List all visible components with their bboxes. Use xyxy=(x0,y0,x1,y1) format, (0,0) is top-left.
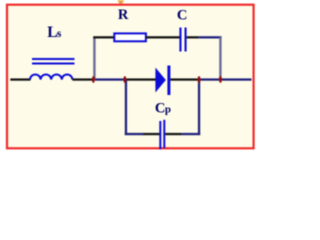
wire: C pin 2 (black) xyxy=(187,36,199,38)
wire: Cp branch right riser (navy) xyxy=(198,79,200,135)
svg-text:C: C xyxy=(155,101,165,117)
wire: Cp pin 1 (black) xyxy=(143,133,159,135)
wire: diode anode pin (black) xyxy=(125,78,156,80)
wire: Cp bottom right run (navy) xyxy=(182,133,201,135)
capacitor C : plates xyxy=(179,28,181,52)
wire: coil to node A (black) xyxy=(72,78,93,80)
wire: Cp branch left riser (navy) xyxy=(125,79,127,135)
diode D1 : cathode bar xyxy=(167,66,170,96)
svg-text:C: C xyxy=(177,7,187,23)
wire: Cp bottom left run (navy) xyxy=(125,133,144,135)
svg-text:R: R xyxy=(118,7,129,23)
junction node A xyxy=(92,76,95,82)
resistor R : body xyxy=(114,33,146,41)
wire: riser to R-C branch, right (grey-blue) xyxy=(219,37,221,80)
capacitor Cp : plates xyxy=(159,121,161,149)
svg-text:s: s xyxy=(57,28,62,40)
diode D1 : triangle xyxy=(155,68,165,93)
inductor Ls : core lines xyxy=(32,59,75,64)
wire: R pin 2 to C pin 1 (black) xyxy=(146,36,180,38)
marker arrow (orange, top) xyxy=(117,0,124,6)
wire: top branch to R pin 1 (black) xyxy=(93,36,114,38)
sheet border frame xyxy=(7,5,254,149)
wire: top branch right run (navy) xyxy=(199,36,222,38)
wire: riser to R-C branch, left (grey-blue) xyxy=(93,37,95,80)
schematic sheet background xyxy=(7,5,254,149)
inductor Ls : coil xyxy=(30,75,72,80)
wire: Cp pin 2 (black) xyxy=(165,133,181,135)
junction node C xyxy=(197,76,200,82)
svg-text:p: p xyxy=(165,104,171,116)
wire: left stub (black, into sheet) xyxy=(10,78,30,80)
wire: node A to node B (navy) xyxy=(93,78,125,80)
wire: diode cathode pin (black) xyxy=(170,78,199,80)
junction node D xyxy=(219,76,222,82)
junction node B xyxy=(123,76,126,82)
wire: node C to right edge (navy) xyxy=(199,78,252,80)
